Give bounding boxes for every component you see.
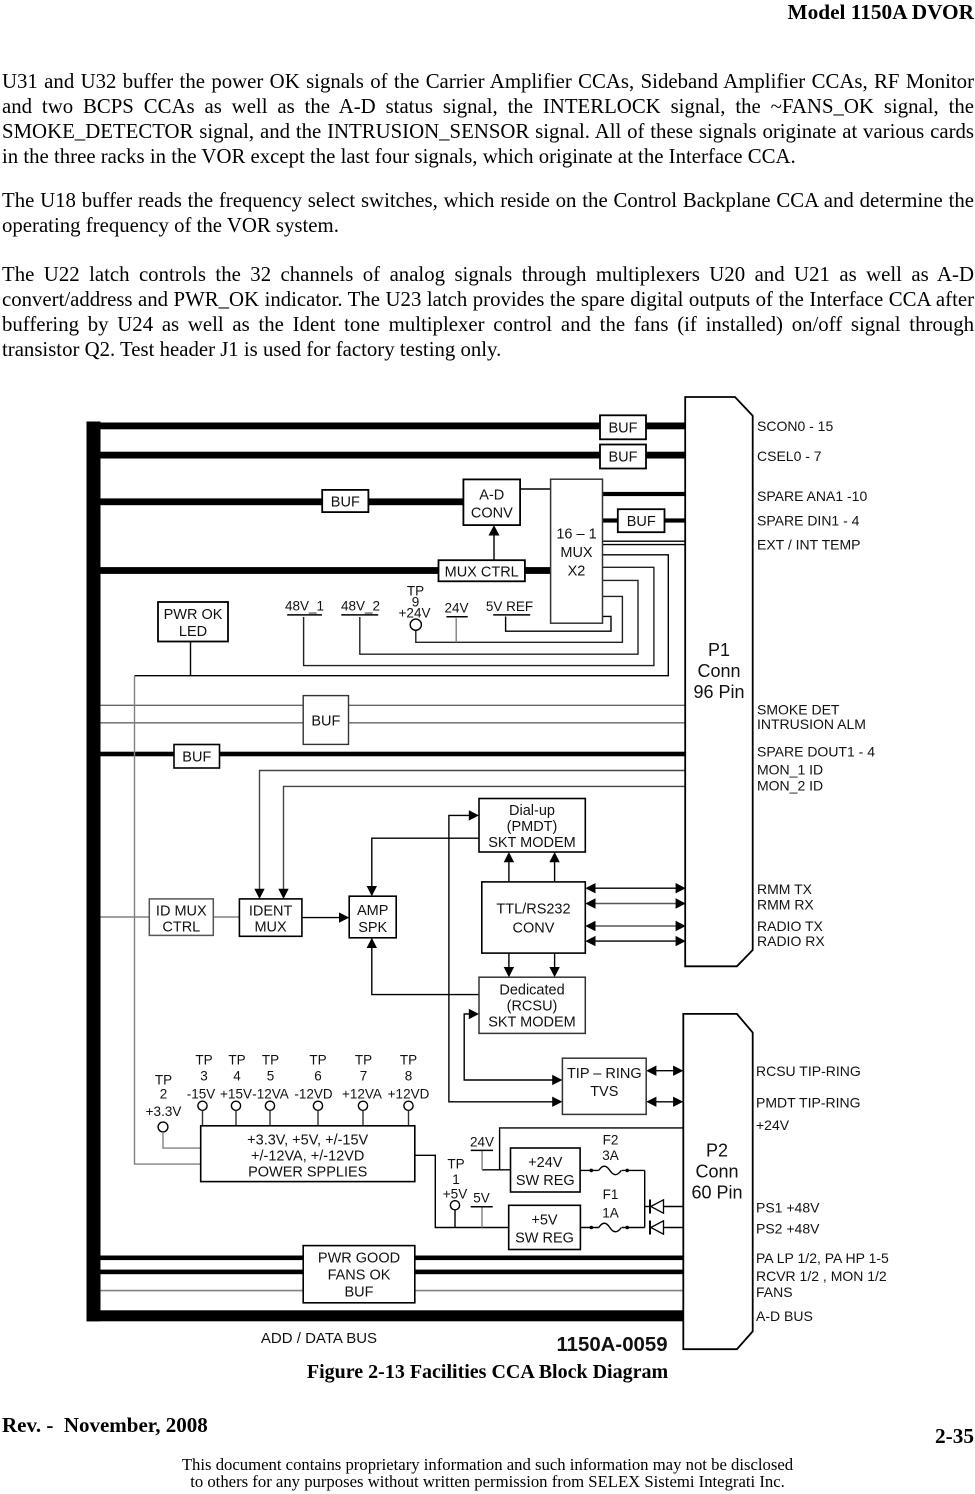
wire +24V/24V monitor loop [416, 596, 623, 642]
svg-text:Conn: Conn [695, 1162, 738, 1182]
svg-text:1: 1 [452, 1172, 460, 1187]
label 5V REF [486, 599, 533, 615]
wire fuse F2 line [580, 1169, 645, 1173]
svg-text:RADIO RX: RADIO RX [757, 933, 825, 949]
net label +15V [220, 1086, 252, 1101]
net label EXT / INT TEMP [757, 536, 860, 552]
address/data bus vertical bar [87, 422, 101, 1322]
svg-text:TP: TP [355, 1053, 372, 1068]
svg-text:1A: 1A [602, 1205, 619, 1220]
wire INT TEMP [603, 544, 686, 546]
svg-text:TP: TP [447, 1156, 464, 1171]
svg-text:ADD / DATA BUS: ADD / DATA BUS [261, 1330, 377, 1347]
svg-text:PWR GOOD: PWR GOOD [318, 1251, 400, 1267]
net label PS2 +48V [756, 1220, 820, 1236]
net label SCON0 - 15 [757, 418, 833, 434]
svg-text:2: 2 [160, 1087, 168, 1102]
svg-text:MUX: MUX [560, 545, 593, 561]
svg-text:+5V: +5V [531, 1213, 558, 1229]
svg-text:3: 3 [200, 1069, 208, 1084]
test point TP4 circle [231, 1101, 240, 1110]
svg-text:TP: TP [309, 1053, 326, 1068]
net label RADIO RX [757, 933, 825, 949]
diode D2 [650, 1221, 664, 1235]
fuse F2 [599, 1166, 622, 1175]
buffer BUF (SPARE DIN) [618, 509, 665, 532]
wire SPARE DOUT1-4 bus [101, 752, 686, 757]
svg-text:PMDT TIP-RING: PMDT TIP-RING [756, 1094, 861, 1110]
wire A-D CONV to 16-1 MUX [520, 488, 551, 490]
svg-text:P2: P2 [706, 1141, 728, 1161]
net label -12VA [252, 1086, 289, 1101]
arrow MON_1 into IDENT MUX [254, 889, 264, 899]
AMP SPK block [349, 896, 396, 938]
svg-text:PWR OK: PWR OK [164, 607, 223, 623]
svg-text:SPK: SPK [358, 920, 387, 936]
wire bottom bus RCVR/MON [101, 1270, 684, 1275]
svg-text:SKT MODEM: SKT MODEM [488, 1015, 576, 1031]
svg-text:8: 8 [405, 1069, 413, 1084]
net label SMOKE DET [757, 701, 840, 717]
label TP 2 +3.3V [146, 1073, 182, 1120]
IDENT MUX block [239, 899, 302, 936]
svg-text:RMM TX: RMM TX [757, 881, 813, 897]
wire INTRUSION ALM [101, 722, 686, 724]
wire A-D converter buffer bus [101, 498, 464, 505]
svg-text:RADIO TX: RADIO TX [757, 918, 824, 934]
wire TVS to P2 PMDT TIP-RING arrow [646, 1097, 683, 1107]
svg-text:SKT MODEM: SKT MODEM [488, 835, 576, 851]
wire Dial-up modem to AMP SPK [367, 838, 479, 896]
svg-text:+24V: +24V [756, 1117, 790, 1133]
ID MUX CTRL block [149, 899, 213, 936]
svg-text:+12VA: +12VA [342, 1086, 382, 1101]
svg-text:MON_2 ID: MON_2 ID [757, 777, 823, 793]
wire 48V_1 monitor loop [304, 567, 654, 665]
net label SPARE DIN1 - 4 [757, 512, 860, 528]
test point TP7 label [355, 1053, 372, 1084]
svg-text:X2: X2 [568, 564, 586, 580]
test point TP6 circle [313, 1101, 322, 1110]
svg-text:24V: 24V [444, 601, 468, 616]
svg-text:IDENT: IDENT [249, 903, 293, 919]
footer page number [935, 1424, 974, 1449]
wire bottom bus PA LP/HP [101, 1256, 684, 1261]
wire TTL/RS232 to Dedicated modem right [549, 953, 559, 977]
wire MUX CTRL to A-D CONV arrow [489, 525, 500, 560]
wire TP7 stub [362, 1110, 364, 1125]
wire PS1 +48V diode line [645, 1206, 684, 1208]
wire TVS to P2 RCSU TIP-RING arrow [646, 1066, 683, 1076]
buffer BUF (SCON) [600, 415, 646, 439]
svg-text:ID MUX: ID MUX [156, 903, 207, 919]
svg-text:BUF: BUF [345, 1285, 374, 1301]
wire fuse F1 line [580, 1226, 644, 1230]
net label SPARE DOUT1 - 4 [757, 743, 875, 759]
svg-text:-15V: -15V [187, 1086, 216, 1101]
svg-text:EXT / INT TEMP: EXT / INT TEMP [757, 536, 860, 552]
label 48V_2 [341, 599, 380, 615]
net label A-D BUS [756, 1308, 813, 1324]
svg-text:MON_1 ID: MON_1 ID [757, 761, 823, 777]
svg-text:RCSU TIP-RING: RCSU TIP-RING [756, 1063, 861, 1079]
svg-text:48V_2: 48V_2 [341, 599, 380, 614]
svg-text:+5V: +5V [443, 1187, 467, 1202]
svg-text:TTL/RS232: TTL/RS232 [496, 902, 570, 918]
wire PWR OK LED drop [190, 642, 192, 676]
svg-text:AMP: AMP [357, 903, 388, 919]
svg-text:SPARE DIN1 - 4: SPARE DIN1 - 4 [757, 512, 860, 528]
net label MON_1 ID [757, 761, 823, 777]
buffer BUF (CSEL) [600, 445, 646, 469]
svg-text:A-D: A-D [479, 487, 504, 503]
svg-text:48V_1: 48V_1 [285, 599, 324, 614]
label 24V upper [444, 601, 468, 617]
footer disclaimer [0, 1456, 975, 1491]
header: Model 1150A DVOR [787, 0, 974, 25]
net label MON_2 ID [757, 777, 823, 793]
wire TTL/RS232 to Dial-up modem right [549, 852, 559, 882]
net label PMDT TIP-RING [756, 1094, 861, 1110]
label TP 9 +24V and test point circle [399, 584, 431, 631]
TTL/RS232 CONV block [482, 882, 586, 953]
svg-text:P1: P1 [708, 640, 730, 660]
label 5V [471, 1191, 493, 1207]
label F2 3A [602, 1132, 619, 1163]
net label PS1 +48V [756, 1199, 820, 1215]
svg-text:+3.3V, +5V, +/-15V: +3.3V, +5V, +/-15V [247, 1132, 368, 1148]
16-1 MUX X2 block [551, 479, 603, 623]
wire Dial-up modem phone line to TVS [449, 810, 563, 1107]
wire RMM TX arrow [585, 883, 686, 893]
svg-text:BUF: BUF [609, 450, 638, 466]
wire RADIO RX arrow [585, 936, 686, 946]
svg-text:CONV: CONV [513, 921, 555, 937]
wire ID MUX CTRL feed [101, 916, 150, 918]
svg-text:A-D BUS: A-D BUS [756, 1308, 813, 1324]
wire SMOKE DET [101, 704, 686, 706]
svg-text:60 Pin: 60 Pin [691, 1183, 742, 1203]
svg-text:+24V: +24V [399, 606, 431, 621]
wire +24V rail to P2 [500, 1128, 684, 1170]
svg-text:RMM RX: RMM RX [757, 896, 814, 912]
wire TP5 stub [269, 1110, 271, 1125]
svg-text:BUF: BUF [182, 750, 211, 766]
Dial-up (PMDT) SKT MODEM block [479, 799, 585, 853]
wire FANS [101, 1290, 684, 1292]
label ADD / DATA BUS [261, 1330, 377, 1347]
net label PA LP 1/2, PA HP 1-5 [756, 1250, 889, 1266]
svg-text:1150A-0059: 1150A-0059 [556, 1334, 667, 1356]
net label RCSU TIP-RING [756, 1063, 861, 1079]
label 24V lower [470, 1135, 494, 1151]
svg-text:TP: TP [228, 1053, 245, 1068]
+24V SW REG block [511, 1148, 581, 1192]
test point TP8 label [400, 1053, 417, 1084]
diode D1 [650, 1200, 664, 1214]
wire MON_2 ID [284, 786, 686, 889]
svg-text:BUF: BUF [331, 494, 360, 510]
svg-text:TP: TP [155, 1073, 172, 1088]
wire RMM RX arrow [585, 898, 686, 908]
net label SPARE ANA1 -10 [757, 488, 867, 504]
svg-text:RCVR 1/2 , MON 1/2: RCVR 1/2 , MON 1/2 [756, 1268, 887, 1284]
wire +48V OR rail [644, 1170, 646, 1227]
Dedicated (RCSU) SKT MODEM block [479, 977, 585, 1033]
svg-text:96 Pin: 96 Pin [693, 682, 744, 702]
net label +24V [756, 1117, 790, 1133]
+5V SW REG block [509, 1205, 581, 1249]
wire TP8 stub [408, 1110, 410, 1125]
arrow MON_2 into IDENT MUX [278, 889, 288, 899]
svg-text:MUX: MUX [254, 919, 287, 935]
wire SPARE ANA1-10 [603, 492, 686, 496]
test point TP6 label [309, 1053, 326, 1084]
wire power supplies to +5V SW REG [413, 1155, 508, 1227]
wire 24V label drop [481, 1150, 483, 1170]
svg-text:5V REF: 5V REF [486, 599, 533, 614]
svg-text:+15V: +15V [220, 1086, 252, 1101]
svg-text:F1: F1 [603, 1187, 619, 1202]
wire 24V regulator output [482, 1169, 510, 1171]
connector P2 60 pin [683, 1014, 752, 1349]
footer revision [2, 1413, 208, 1438]
svg-text:(RCSU): (RCSU) [507, 999, 558, 1015]
test point TP5 circle [265, 1101, 274, 1110]
test point TP7 circle [358, 1101, 367, 1110]
wire RADIO TX arrow [585, 921, 686, 931]
test point TP8 circle [404, 1101, 413, 1110]
svg-text:INTRUSION ALM: INTRUSION ALM [757, 716, 866, 732]
svg-text:Conn: Conn [697, 661, 740, 681]
paragraph 1 [2, 69, 974, 169]
test point TP1 circle [450, 1201, 459, 1228]
wire TP3 stub [202, 1110, 204, 1125]
wire +3.3V feed to power supplies [135, 676, 201, 1164]
paragraph 3 [2, 262, 974, 362]
test point TP2 circle and wire [158, 1122, 201, 1148]
net label CSEL0 - 7 [757, 448, 822, 464]
svg-text:4: 4 [233, 1069, 241, 1084]
buffer BUF (A-D) [322, 490, 368, 512]
buffer BUF (SMOKE/INTRUSION) [303, 696, 348, 745]
net label RMM TX [757, 881, 813, 897]
TIP-RING TVS block [562, 1058, 646, 1114]
net label INTRUSION ALM [757, 716, 866, 732]
wire +3.3V monitor loop (outer) [135, 555, 669, 676]
figure caption [0, 1361, 975, 1384]
svg-text:-12VD: -12VD [294, 1086, 333, 1101]
svg-text:MUX CTRL: MUX CTRL [445, 564, 519, 580]
wire EXT TEMP [603, 540, 686, 542]
svg-text:Dial-up: Dial-up [509, 803, 555, 819]
svg-text:+24V: +24V [528, 1155, 563, 1171]
svg-text:TP: TP [195, 1053, 212, 1068]
wire 5V REF monitor loop [506, 616, 611, 631]
test point TP3 label [195, 1053, 212, 1084]
label 1150A-0059 [556, 1334, 667, 1356]
svg-text:FANS: FANS [756, 1284, 793, 1300]
svg-text:+/-12VA, +/-12VD: +/-12VA, +/-12VD [251, 1148, 364, 1164]
net label +12VD [388, 1086, 430, 1101]
MUX CTRL block [439, 560, 525, 581]
PWR OK LED block [158, 602, 228, 642]
wire Dedicated modem phone line to TVS [464, 1009, 562, 1085]
wire CSEL0-7 bus [101, 452, 686, 459]
svg-text:TVS: TVS [590, 1084, 618, 1100]
svg-text:LED: LED [179, 624, 207, 640]
wire SPARE DIN1-4 [603, 518, 686, 522]
wire TTL/RS232 to Dial-up modem left [504, 852, 514, 882]
svg-text:+3.3V: +3.3V [146, 1104, 182, 1119]
svg-text:PA LP 1/2, PA HP 1-5: PA LP 1/2, PA HP 1-5 [756, 1250, 889, 1266]
test point TP4 label [228, 1053, 245, 1084]
svg-text:BUF: BUF [311, 713, 340, 729]
label F1 1A [602, 1187, 619, 1220]
svg-text:F2: F2 [603, 1132, 619, 1147]
wire PS2 +48V diode line [664, 1227, 684, 1229]
wire 5V label drop [481, 1207, 483, 1228]
test point TP3 circle [198, 1101, 207, 1110]
A-D CONV block [463, 479, 520, 525]
svg-text:Dedicated: Dedicated [499, 983, 564, 999]
wire 48V_2 monitor loop [360, 580, 638, 654]
buffer BUF (SPARE DOUT) [174, 745, 220, 769]
svg-text:7: 7 [360, 1069, 368, 1084]
net label RCVR 1/2 , MON 1/2 [756, 1268, 887, 1284]
net label -12VD [294, 1086, 333, 1101]
svg-text:SPARE DOUT1 - 4: SPARE DOUT1 - 4 [757, 743, 875, 759]
test point TP5 label [262, 1053, 279, 1084]
wire MUX CTRL bus [101, 567, 551, 574]
fuse F1 [599, 1223, 622, 1232]
wire A-D BUS thick bar [87, 1310, 684, 1321]
net label RADIO TX [757, 918, 824, 934]
svg-text:16 – 1: 16 – 1 [556, 527, 596, 543]
svg-text:SW REG: SW REG [515, 1231, 574, 1247]
paragraph 2 [2, 188, 974, 238]
svg-text:PS1 +48V: PS1 +48V [756, 1199, 820, 1215]
connector P1 96 pin [685, 397, 753, 966]
svg-text:+12VD: +12VD [388, 1086, 430, 1101]
svg-text:CTRL: CTRL [162, 919, 200, 935]
svg-text:PS2 +48V: PS2 +48V [756, 1220, 820, 1236]
svg-text:CONV: CONV [471, 505, 513, 521]
net label -15V [187, 1086, 216, 1101]
svg-text:SCON0 - 15: SCON0 - 15 [757, 418, 833, 434]
wire TTL/RS232 to Dedicated modem left [504, 953, 514, 977]
net label FANS [756, 1284, 793, 1300]
wire ID MUX CTRL to IDENT MUX [213, 916, 239, 918]
wire MON_1 ID [260, 771, 686, 890]
svg-text:-12VA: -12VA [252, 1086, 289, 1101]
svg-text:6: 6 [314, 1069, 322, 1084]
svg-text:BUF: BUF [609, 420, 638, 436]
svg-text:CSEL0 - 7: CSEL0 - 7 [757, 448, 822, 464]
wire TP4 stub [235, 1110, 237, 1125]
net label +12VA [342, 1086, 382, 1101]
svg-text:5V: 5V [473, 1191, 490, 1206]
svg-text:(PMDT): (PMDT) [507, 819, 558, 835]
label 48V_1 [285, 599, 324, 615]
wire SCON0-15 bus [101, 423, 686, 430]
POWER SUPPLIES block [201, 1126, 415, 1182]
label TP 1 +5V [443, 1156, 467, 1201]
svg-text:TIP – RING: TIP – RING [567, 1066, 642, 1082]
wire TP6 stub [317, 1110, 319, 1125]
svg-text:SW REG: SW REG [516, 1173, 575, 1189]
svg-text:SPARE ANA1 -10: SPARE ANA1 -10 [757, 488, 867, 504]
svg-text:TP: TP [400, 1053, 417, 1068]
net label RMM RX [757, 896, 814, 912]
svg-text:BUF: BUF [627, 514, 656, 530]
svg-text:FANS OK: FANS OK [328, 1268, 391, 1284]
wire IDENT MUX to AMP SPK [302, 912, 349, 922]
wire Dedicated modem to AMP SPK [367, 938, 479, 995]
svg-text:24V: 24V [470, 1135, 494, 1150]
PWR GOOD FANS OK BUF block [303, 1246, 415, 1303]
svg-text:3A: 3A [602, 1148, 619, 1163]
svg-text:TP: TP [262, 1053, 279, 1068]
svg-text:POWER SPPLIES: POWER SPPLIES [248, 1164, 367, 1180]
svg-text:5: 5 [267, 1069, 275, 1084]
